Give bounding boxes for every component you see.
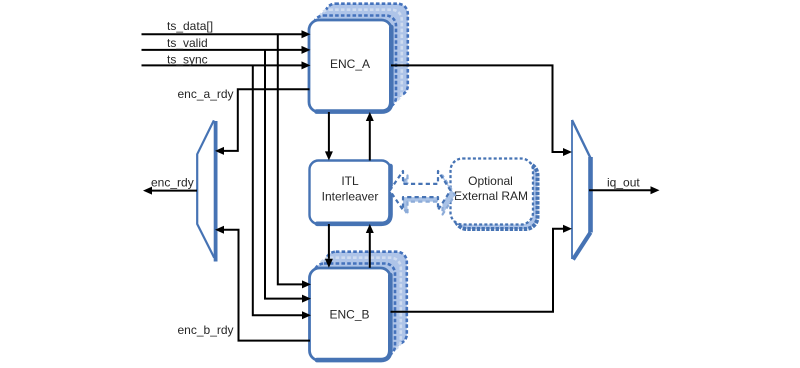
- svg-text:External RAM: External RAM: [454, 189, 528, 203]
- wire enc_rdy output from mux M1: [143, 187, 197, 195]
- wire ts_sync into ENC_A: [142, 61, 311, 69]
- svg-text:Interleaver: Interleaver: [322, 190, 379, 204]
- svg-text:ts_valid: ts_valid: [167, 36, 208, 50]
- block ENC_B stacked shadow cards: [314, 252, 407, 356]
- label enc_a_rdy: [178, 87, 234, 101]
- svg-text:ENC_A: ENC_A: [330, 57, 370, 71]
- svg-text:ts_data[]: ts_data[]: [167, 19, 213, 33]
- label iq_out: [607, 175, 640, 189]
- label ts_valid: [167, 36, 208, 50]
- wire iq_out output from mux M2: [589, 186, 660, 194]
- label ts_data[]: [167, 19, 213, 33]
- wire ts_valid into ENC_A: [142, 46, 311, 54]
- wire ts_sync branch into ENC_B: [253, 65, 311, 319]
- wire ITL to ENC_B (down arrow): [325, 224, 333, 268]
- wire enc_a_rdy from ENC_A into mux M1: [215, 89, 310, 155]
- mux M1 (enc_rdy combiner, left): [197, 120, 215, 261]
- label enc_rdy: [151, 176, 194, 190]
- label ts_sync: [167, 52, 208, 66]
- block ENC_B front: [310, 268, 391, 361]
- wire ITL to ENC_A (up arrow): [366, 112, 374, 161]
- block ENC_A front: [309, 20, 392, 112]
- label enc_b_rdy: [178, 323, 234, 337]
- svg-text:ITL: ITL: [341, 174, 359, 188]
- block Optional External RAM front: [451, 159, 534, 225]
- wire ts_valid branch into ENC_B: [265, 50, 311, 303]
- svg-text:Optional: Optional: [468, 174, 513, 188]
- wire ts_data[] into ENC_A: [142, 30, 311, 38]
- block ENC_A stacked shadow cards: [314, 4, 408, 108]
- svg-text:enc_rdy: enc_rdy: [151, 176, 194, 190]
- dashed double arrow shadow (ITL to RAM): [396, 176, 455, 215]
- wire ENC_A output into mux M2: [391, 65, 572, 156]
- svg-text:ENC_B: ENC_B: [329, 308, 369, 322]
- mux M2 (iq_out selector, right): [572, 120, 591, 260]
- svg-text:ts_sync: ts_sync: [167, 52, 208, 66]
- wire ENC_B output into mux M2: [391, 225, 573, 312]
- svg-text:enc_a_rdy: enc_a_rdy: [178, 87, 234, 101]
- svg-text:enc_b_rdy: enc_b_rdy: [178, 323, 234, 337]
- block ITL Interleaver: [310, 161, 391, 225]
- wire ENC_B to ITL (up arrow): [366, 224, 374, 268]
- svg-text:iq_out: iq_out: [607, 175, 640, 189]
- wire enc_b_rdy from ENC_B into mux M1: [215, 226, 310, 341]
- wire ts_data[] branch into ENC_B: [278, 34, 311, 288]
- block Optional External RAM shadow card: [455, 163, 538, 229]
- dashed double arrow ITL to RAM: [390, 171, 451, 210]
- wire ENC_A to ITL (down arrow): [325, 112, 333, 160]
